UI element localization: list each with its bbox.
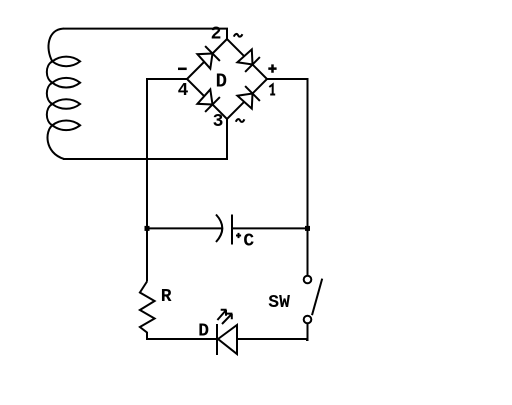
svg-text:D: D bbox=[198, 322, 209, 342]
inductor coil (primary winding, left) bbox=[47, 29, 80, 159]
svg-text:3: 3 bbox=[213, 112, 224, 132]
diode D bridge top-left (anode node 4, cathode node 2) bbox=[197, 46, 220, 69]
label: pin 2 bbox=[211, 25, 222, 45]
capacitor C (polarized): curved negative plate bbox=[216, 215, 222, 243]
label: SW designator bbox=[268, 293, 290, 313]
svg-text:R: R bbox=[161, 287, 172, 307]
diode D bridge top-right (anode node 2, cathode node 1) bbox=[237, 49, 260, 72]
wire: switch bottom contact down to bottom rail bbox=[306, 324, 308, 340]
svg-text:D: D bbox=[216, 71, 227, 93]
switch SW: top contact circle bbox=[304, 276, 312, 284]
svg-text:SW: SW bbox=[268, 293, 290, 313]
wire: left rail down to capacitor junction bbox=[146, 78, 148, 228]
wire: node 1 (+) to right rail bbox=[267, 78, 308, 80]
label: ~ at pin 3 bbox=[236, 119, 245, 122]
label: ~ at pin 2 bbox=[234, 34, 243, 37]
wire: resistor bottom to LED cathode bbox=[146, 338, 216, 340]
label: D bridge designator bbox=[216, 71, 227, 93]
capacitor C: straight positive plate bbox=[231, 215, 233, 245]
LED D: cathode bar bbox=[216, 324, 218, 355]
wire: right rail down to capacitor junction bbox=[307, 78, 309, 228]
wire: node 4 (-) to left rail bbox=[147, 78, 187, 80]
switch SW: bottom contact circle bbox=[304, 316, 312, 324]
junction node: left capacitor tap bbox=[145, 226, 150, 231]
label: - polarity at node 4 bbox=[178, 68, 187, 71]
wire: top wire from coil to bridge AC terminal 2 bbox=[63, 28, 228, 40]
svg-text:C: C bbox=[243, 232, 254, 252]
label: D designator of LED bbox=[198, 322, 209, 342]
diode D bridge bottom-left (anode node 4, cathode node 3) bbox=[197, 89, 220, 112]
wire: bridge AC terminal 3 down and left to coil bottom bbox=[63, 119, 227, 159]
label: pin 3 bbox=[213, 112, 224, 132]
label: pin 4 bbox=[178, 81, 189, 101]
LED D: light emission arrow 1 bbox=[217, 310, 226, 320]
label: + polarity of capacitor bbox=[236, 233, 241, 238]
wire: left rail capacitor junction down to resistor bbox=[146, 228, 148, 281]
svg-text:4: 4 bbox=[178, 81, 189, 101]
wire: capacitor positive plate to right junction bbox=[232, 227, 308, 229]
label: C designator bbox=[243, 232, 254, 252]
switch SW: lever bbox=[312, 279, 322, 316]
diode D bridge bottom-right (anode node 3, cathode node 1) bbox=[237, 86, 260, 109]
wire: left junction to capacitor negative plate bbox=[147, 227, 222, 229]
wire: LED anode to switch bottom bbox=[237, 338, 308, 340]
bridge rectifier D: diamond arms bbox=[187, 39, 267, 119]
svg-text:2: 2 bbox=[211, 25, 222, 45]
resistor R zigzag bbox=[140, 282, 155, 340]
junction node: right capacitor tap bbox=[305, 226, 310, 231]
wire: right rail capacitor junction down to switch bbox=[307, 228, 309, 275]
LED D: triangle (anode right, pointing left) bbox=[218, 325, 237, 354]
label: R designator bbox=[161, 287, 172, 307]
label: pin 1 bbox=[269, 84, 275, 94]
label: + polarity at node 1 bbox=[268, 64, 276, 72]
LED D: light emission arrow 2 bbox=[222, 314, 232, 324]
